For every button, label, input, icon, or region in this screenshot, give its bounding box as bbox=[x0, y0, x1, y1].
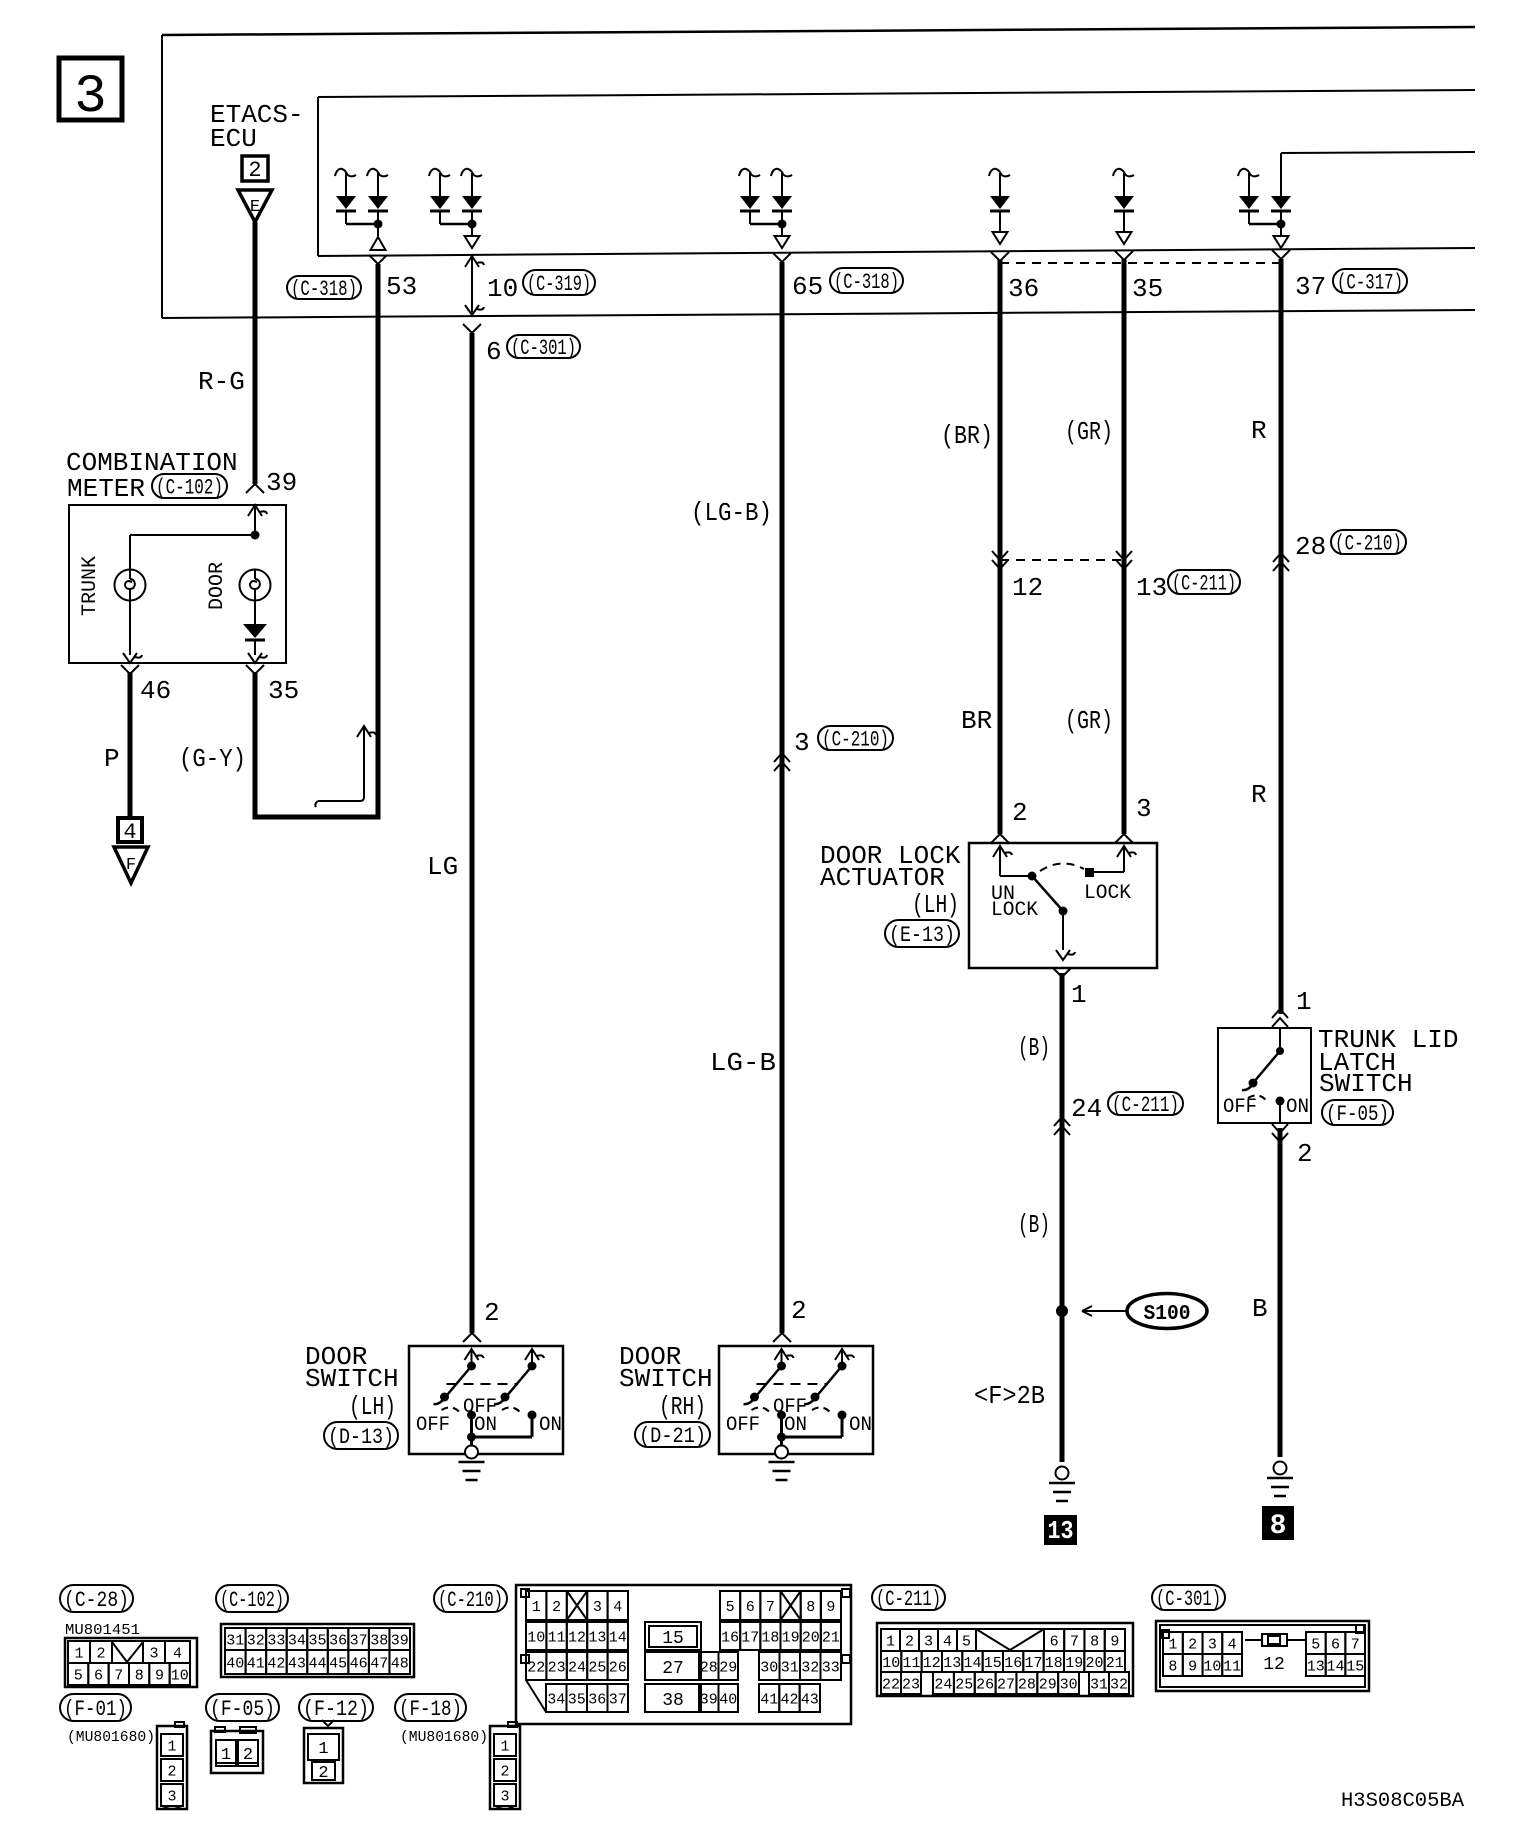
actuator switch mechanism bbox=[993, 846, 1136, 960]
svg-text:8: 8 bbox=[135, 1667, 144, 1684]
svg-text:(D-13): (D-13) bbox=[328, 1425, 394, 1450]
svg-text:16: 16 bbox=[721, 1629, 739, 1646]
svg-text:18: 18 bbox=[1045, 1655, 1063, 1672]
actuator pin 1 bbox=[1053, 968, 1087, 1010]
svg-text:1: 1 bbox=[74, 1645, 83, 1662]
wire LG (pin 6 to door switch LH) bbox=[470, 333, 475, 1333]
svg-text:(C-319): (C-319) bbox=[527, 272, 591, 297]
svg-text:34: 34 bbox=[288, 1632, 306, 1649]
svg-text:6: 6 bbox=[94, 1667, 103, 1684]
wire BR (pin 36 to actuator pin 2) bbox=[998, 260, 1003, 834]
page number box 3 bbox=[59, 58, 122, 128]
svg-text:30: 30 bbox=[1060, 1676, 1078, 1693]
svg-text:(F-18): (F-18) bbox=[399, 1697, 462, 1722]
svg-text:13: 13 bbox=[1136, 573, 1167, 603]
svg-text:2: 2 bbox=[1012, 798, 1028, 828]
svg-text:ON: ON bbox=[849, 1414, 872, 1437]
svg-text:14: 14 bbox=[963, 1655, 981, 1672]
wire P (pin 46 to connector 4) bbox=[128, 672, 133, 818]
diode above pin 35 bbox=[1113, 169, 1134, 244]
svg-text:ON: ON bbox=[784, 1414, 807, 1437]
connector C-211 pin grid bbox=[877, 1623, 1133, 1696]
svg-text:(C-210): (C-210) bbox=[822, 728, 889, 753]
svg-text:23: 23 bbox=[902, 1676, 920, 1693]
svg-text:45: 45 bbox=[329, 1655, 347, 1672]
pin 35 bbox=[1115, 251, 1163, 304]
ground ref box 8 bbox=[1262, 1506, 1294, 1542]
svg-text:43: 43 bbox=[288, 1655, 306, 1672]
door switch (RH) contacts bbox=[744, 1349, 855, 1446]
svg-text:18: 18 bbox=[761, 1629, 779, 1646]
svg-text:36: 36 bbox=[1008, 274, 1039, 304]
pin 65 bbox=[773, 253, 903, 302]
svg-text:35: 35 bbox=[268, 676, 299, 706]
svg-text:(C-211): (C-211) bbox=[1112, 1093, 1179, 1118]
svg-text:1: 1 bbox=[886, 1633, 895, 1650]
svg-text:9: 9 bbox=[826, 1599, 835, 1616]
svg-text:(G-Y): (G-Y) bbox=[179, 744, 246, 774]
svg-text:3: 3 bbox=[74, 67, 106, 128]
svg-text:<F>2B: <F>2B bbox=[974, 1381, 1045, 1411]
svg-text:7: 7 bbox=[114, 1667, 123, 1684]
svg-text:METER: METER bbox=[67, 474, 145, 504]
svg-text:8: 8 bbox=[806, 1599, 815, 1616]
svg-text:ECU: ECU bbox=[210, 124, 257, 154]
svg-text:24: 24 bbox=[1071, 1094, 1102, 1124]
svg-text:43: 43 bbox=[801, 1691, 819, 1708]
svg-text:29: 29 bbox=[1039, 1676, 1057, 1693]
svg-text:19: 19 bbox=[782, 1629, 800, 1646]
svg-text:3: 3 bbox=[924, 1633, 933, 1650]
svg-text:31: 31 bbox=[1090, 1676, 1108, 1693]
svg-text:28: 28 bbox=[1018, 1676, 1036, 1693]
svg-text:(C-318): (C-318) bbox=[291, 277, 357, 302]
connector C-301 pin grid bbox=[1156, 1621, 1369, 1691]
svg-text:3: 3 bbox=[149, 1645, 158, 1662]
actuator pin 2 bbox=[991, 798, 1028, 843]
svg-text:4: 4 bbox=[943, 1633, 952, 1650]
svg-text:13: 13 bbox=[1307, 1658, 1325, 1675]
wire B (trunk latch to ground) bbox=[1278, 1128, 1283, 1457]
svg-text:41: 41 bbox=[760, 1691, 778, 1708]
svg-text:2: 2 bbox=[318, 1764, 328, 1783]
svg-text:(C-301): (C-301) bbox=[1156, 1587, 1221, 1612]
connector F-01 label bbox=[60, 1694, 131, 1721]
svg-text:(C-102): (C-102) bbox=[220, 1588, 284, 1613]
svg-text:38: 38 bbox=[370, 1632, 388, 1649]
svg-text:15: 15 bbox=[662, 1629, 684, 1649]
svg-text:MU801451: MU801451 bbox=[65, 1622, 140, 1639]
wire G-Y loop (meter pin 35 joins pin 53 wire) bbox=[255, 264, 378, 817]
labels DOOR SWITCH (RH) (D-21) bbox=[619, 1342, 713, 1422]
trunk latch pin 2 bbox=[1272, 1124, 1313, 1169]
svg-text:2: 2 bbox=[96, 1645, 105, 1662]
svg-text:21: 21 bbox=[1106, 1655, 1124, 1672]
svg-text:28: 28 bbox=[700, 1659, 718, 1676]
svg-text:3: 3 bbox=[1136, 794, 1152, 824]
svg-text:DOOR: DOOR bbox=[206, 562, 229, 610]
svg-text:6: 6 bbox=[1331, 1636, 1340, 1653]
svg-text:R: R bbox=[1251, 780, 1267, 810]
diode above pin 36 bbox=[989, 169, 1010, 244]
svg-text:12: 12 bbox=[923, 1655, 941, 1672]
ground (trunk latch) bbox=[1267, 1462, 1293, 1497]
pin 10 with arrows bbox=[465, 256, 518, 315]
door switch (LH) contacts bbox=[434, 1349, 545, 1446]
svg-text:8: 8 bbox=[1090, 1633, 1099, 1650]
wire to trunk lamp bbox=[130, 534, 255, 536]
svg-text:4: 4 bbox=[173, 1645, 182, 1662]
pin 36 bbox=[991, 252, 1039, 304]
svg-text:(C-28): (C-28) bbox=[64, 1588, 129, 1613]
svg-text:9: 9 bbox=[1188, 1658, 1197, 1675]
svg-text:25: 25 bbox=[955, 1676, 973, 1693]
svg-text:(MU801680): (MU801680) bbox=[67, 1729, 155, 1746]
svg-text:12: 12 bbox=[1263, 1655, 1285, 1675]
connector label (C-319) bbox=[523, 270, 595, 295]
connector marker box 2 (ETACS-ECU) bbox=[242, 156, 268, 183]
svg-text:13: 13 bbox=[943, 1655, 961, 1672]
svg-text:2: 2 bbox=[167, 1763, 176, 1780]
wire R-G (E triangle to combination meter pin 39) bbox=[246, 222, 264, 493]
svg-text:B: B bbox=[1252, 1294, 1268, 1324]
connector marker box 4 bbox=[118, 818, 142, 845]
svg-text:6: 6 bbox=[746, 1599, 755, 1616]
svg-text:(C-211): (C-211) bbox=[1172, 572, 1236, 597]
svg-text:19: 19 bbox=[1065, 1655, 1083, 1672]
pin 37 bbox=[1272, 250, 1407, 302]
combination meter pin 39 entry arrow bbox=[248, 505, 267, 535]
svg-text:31: 31 bbox=[781, 1659, 799, 1676]
svg-text:(B): (B) bbox=[1018, 1033, 1050, 1063]
diode pair above pin 65 bbox=[739, 169, 792, 248]
pin 6 connector (C-301) below frame bbox=[463, 324, 580, 367]
trunk latch OFF/ON labels bbox=[1223, 1096, 1309, 1119]
svg-text:(LH): (LH) bbox=[912, 890, 959, 920]
svg-text:3: 3 bbox=[794, 728, 810, 758]
svg-text:3: 3 bbox=[167, 1788, 176, 1805]
svg-text:35: 35 bbox=[568, 1691, 586, 1708]
svg-text:29: 29 bbox=[719, 1659, 737, 1676]
svg-text:24: 24 bbox=[568, 1659, 586, 1676]
svg-text:2: 2 bbox=[248, 158, 261, 183]
svg-text:1: 1 bbox=[500, 1738, 509, 1755]
svg-text:ACTUATOR: ACTUATOR bbox=[820, 863, 945, 893]
svg-text:OFF: OFF bbox=[1223, 1096, 1257, 1119]
connector F-05 drawing bbox=[211, 1727, 263, 1773]
svg-text:1: 1 bbox=[1168, 1636, 1177, 1653]
svg-text:33: 33 bbox=[822, 1659, 840, 1676]
svg-text:SWITCH: SWITCH bbox=[619, 1364, 713, 1394]
svg-text:13: 13 bbox=[588, 1629, 606, 1646]
svg-text:15: 15 bbox=[1346, 1658, 1364, 1675]
svg-text:33: 33 bbox=[267, 1632, 285, 1649]
svg-text:(C-102): (C-102) bbox=[156, 476, 223, 501]
svg-text:40: 40 bbox=[226, 1655, 244, 1672]
svg-text:31: 31 bbox=[226, 1632, 244, 1649]
inline connector 28 (C-210) bbox=[1273, 530, 1406, 571]
wire GR (pin 35 to actuator pin 3) bbox=[1122, 259, 1127, 834]
DOOR LOCK ACTUATOR box bbox=[969, 843, 1157, 968]
svg-text:44: 44 bbox=[308, 1655, 326, 1672]
svg-text:(LH): (LH) bbox=[349, 1392, 396, 1422]
svg-text:5: 5 bbox=[1311, 1636, 1320, 1653]
svg-text:48: 48 bbox=[391, 1655, 409, 1672]
svg-text:6: 6 bbox=[1050, 1633, 1059, 1650]
svg-text:8: 8 bbox=[1270, 1511, 1287, 1542]
svg-text:(D-21): (D-21) bbox=[639, 1424, 706, 1449]
labels DOOR LOCK ACTUATOR (LH) (E-13) bbox=[820, 841, 961, 920]
connector C-28 pin grid bbox=[65, 1638, 197, 1687]
svg-text:12: 12 bbox=[568, 1629, 586, 1646]
wire B (actuator pin 1 to ground) bbox=[1060, 973, 1065, 1462]
svg-text:9: 9 bbox=[1110, 1633, 1119, 1650]
svg-text:20: 20 bbox=[1085, 1655, 1103, 1672]
svg-text:27: 27 bbox=[997, 1676, 1015, 1693]
svg-text:34: 34 bbox=[547, 1691, 565, 1708]
svg-text:10: 10 bbox=[1203, 1658, 1221, 1675]
svg-text:(RH): (RH) bbox=[659, 1392, 706, 1422]
trunk latch switch mechanism bbox=[1242, 1028, 1285, 1123]
inline connector 12 / 13 (C-211) bbox=[992, 551, 1240, 603]
svg-text:32: 32 bbox=[801, 1659, 819, 1676]
svg-text:10: 10 bbox=[527, 1629, 545, 1646]
svg-text:32: 32 bbox=[247, 1632, 265, 1649]
svg-text:(C-318): (C-318) bbox=[834, 270, 899, 295]
svg-text:6: 6 bbox=[486, 337, 502, 367]
ETACS-ECU inner box bbox=[318, 90, 1475, 256]
svg-text:(F-05): (F-05) bbox=[1326, 1102, 1389, 1127]
wire LG-B (pin 65 to door switch RH) bbox=[780, 262, 785, 1333]
pin 53 bbox=[369, 255, 417, 302]
TRUNK LID LATCH SWITCH box bbox=[1218, 1028, 1311, 1123]
svg-text:4: 4 bbox=[613, 1599, 622, 1616]
svg-text:LOCK: LOCK bbox=[1084, 882, 1131, 905]
svg-text:TRUNK: TRUNK bbox=[79, 556, 102, 616]
connector C-301 label bbox=[1152, 1585, 1225, 1610]
connector F-01 drawing bbox=[157, 1722, 187, 1809]
svg-text:ON: ON bbox=[1286, 1096, 1309, 1119]
connector F-18 drawing bbox=[490, 1722, 520, 1809]
terminal triangle E bbox=[238, 190, 272, 222]
wire R (pin 37 to trunk latch) bbox=[1279, 259, 1284, 1014]
svg-text:S100: S100 bbox=[1144, 1303, 1191, 1326]
svg-text:BR: BR bbox=[961, 706, 992, 736]
svg-text:28: 28 bbox=[1295, 532, 1326, 562]
svg-text:(E-13): (E-13) bbox=[889, 923, 955, 948]
lamp TRUNK bbox=[115, 570, 146, 601]
svg-text:3: 3 bbox=[593, 1599, 602, 1616]
svg-text:41: 41 bbox=[247, 1655, 265, 1672]
svg-text:22: 22 bbox=[882, 1676, 900, 1693]
svg-text:(B): (B) bbox=[1018, 1210, 1050, 1240]
connector label (C-318) for pin 53 bbox=[287, 276, 361, 299]
terminal triangle F bbox=[114, 847, 148, 883]
svg-text:37: 37 bbox=[1295, 272, 1326, 302]
svg-text:R-G: R-G bbox=[198, 367, 245, 397]
svg-text:42: 42 bbox=[267, 1655, 285, 1672]
ground (S100 branch) bbox=[1049, 1467, 1075, 1502]
svg-text:21: 21 bbox=[822, 1629, 840, 1646]
svg-text:2: 2 bbox=[1297, 1139, 1313, 1169]
svg-text:46: 46 bbox=[140, 676, 171, 706]
svg-text:37: 37 bbox=[350, 1632, 368, 1649]
svg-text:65: 65 bbox=[792, 272, 823, 302]
COMBINATION METER box (C-102) bbox=[69, 505, 286, 663]
svg-text:23: 23 bbox=[548, 1659, 566, 1676]
svg-text:SWITCH: SWITCH bbox=[305, 1364, 399, 1394]
meter exit arrows pin 46 bbox=[121, 653, 142, 674]
svg-text:5: 5 bbox=[726, 1599, 735, 1616]
svg-text:36: 36 bbox=[588, 1691, 606, 1708]
svg-text:LOCK: LOCK bbox=[991, 899, 1038, 922]
diode pair above pin 53 bbox=[335, 169, 388, 250]
svg-text:2: 2 bbox=[552, 1599, 561, 1616]
svg-text:1: 1 bbox=[532, 1599, 541, 1616]
connector F-05 label bbox=[206, 1694, 279, 1721]
svg-text:(F-05): (F-05) bbox=[210, 1697, 275, 1722]
direction arrow (to ETACS) bbox=[315, 726, 376, 807]
svg-text:47: 47 bbox=[370, 1655, 388, 1672]
connector C-102 pin grid bbox=[221, 1624, 414, 1677]
svg-text:(C-210): (C-210) bbox=[438, 1588, 503, 1613]
svg-text:36: 36 bbox=[329, 1632, 347, 1649]
svg-text:5: 5 bbox=[962, 1633, 971, 1650]
svg-text:39: 39 bbox=[391, 1632, 409, 1649]
svg-text:2: 2 bbox=[905, 1633, 914, 1650]
DOOR SWITCH (LH) box bbox=[409, 1346, 563, 1454]
svg-text:53: 53 bbox=[386, 272, 417, 302]
svg-text:17: 17 bbox=[1024, 1655, 1042, 1672]
ground ref box 13 bbox=[1044, 1515, 1077, 1546]
svg-text:(GR): (GR) bbox=[1065, 417, 1113, 447]
svg-text:ON: ON bbox=[539, 1414, 562, 1437]
svg-text:(F-12): (F-12) bbox=[303, 1697, 369, 1722]
svg-text:11: 11 bbox=[548, 1629, 566, 1646]
dashed bus linking pins 36-35-37 bbox=[1000, 262, 1281, 264]
svg-text:25: 25 bbox=[588, 1659, 606, 1676]
svg-text:H3S08C05BA: H3S08C05BA bbox=[1341, 1790, 1464, 1813]
svg-text:12: 12 bbox=[1012, 573, 1043, 603]
splice S100 bbox=[1056, 1294, 1207, 1329]
svg-text:38: 38 bbox=[662, 1691, 684, 1711]
labels TRUNK LID LATCH SWITCH (F-05) bbox=[1318, 1025, 1458, 1099]
svg-text:4: 4 bbox=[1228, 1636, 1237, 1653]
svg-text:LG-B: LG-B bbox=[710, 1048, 776, 1078]
svg-text:E: E bbox=[250, 198, 260, 217]
node: junction at pin39 branch bbox=[251, 531, 260, 540]
svg-text:24: 24 bbox=[934, 1676, 952, 1693]
svg-text:17: 17 bbox=[741, 1629, 759, 1646]
connector F-12 label bbox=[299, 1694, 373, 1721]
svg-text:11: 11 bbox=[1223, 1658, 1241, 1675]
svg-text:1: 1 bbox=[167, 1738, 176, 1755]
wire trunk lamp to pin 46 bbox=[129, 600, 131, 655]
svg-text:(C-210): (C-210) bbox=[1335, 532, 1402, 557]
connector C-28 label bbox=[60, 1585, 133, 1612]
svg-text:35: 35 bbox=[1132, 274, 1163, 304]
svg-text:14: 14 bbox=[1326, 1658, 1344, 1675]
svg-text:4: 4 bbox=[123, 820, 136, 845]
svg-text:7: 7 bbox=[766, 1599, 775, 1616]
diode pair above pin 37 bbox=[1238, 153, 1291, 248]
door switch RH pin 2 bbox=[773, 1296, 807, 1342]
actuator pin 3 bbox=[1115, 794, 1152, 843]
svg-text:(F-01): (F-01) bbox=[64, 1697, 127, 1722]
connector C-210 label bbox=[434, 1585, 507, 1612]
svg-text:2: 2 bbox=[791, 1296, 807, 1326]
svg-text:10: 10 bbox=[882, 1655, 900, 1672]
svg-text:20: 20 bbox=[802, 1629, 820, 1646]
svg-text:3: 3 bbox=[500, 1788, 509, 1805]
svg-text:15: 15 bbox=[984, 1655, 1002, 1672]
svg-text:(C-211): (C-211) bbox=[876, 1587, 941, 1612]
svg-text:1: 1 bbox=[1296, 987, 1312, 1017]
svg-text:(BR): (BR) bbox=[941, 421, 993, 451]
ground (door switch RH) bbox=[769, 1446, 795, 1481]
svg-text:(C-301): (C-301) bbox=[511, 336, 576, 361]
svg-text:35: 35 bbox=[308, 1632, 326, 1649]
svg-text:37: 37 bbox=[609, 1691, 627, 1708]
svg-text:26: 26 bbox=[609, 1659, 627, 1676]
svg-text:(C-317): (C-317) bbox=[1337, 271, 1403, 296]
svg-text:30: 30 bbox=[760, 1659, 778, 1676]
diode pair above pin 10 bbox=[429, 169, 482, 248]
door switch LH pin 2 bbox=[463, 1298, 500, 1342]
svg-text:7: 7 bbox=[1351, 1636, 1360, 1653]
svg-text:39: 39 bbox=[700, 1691, 718, 1708]
svg-text:2: 2 bbox=[500, 1763, 509, 1780]
svg-text:14: 14 bbox=[609, 1629, 627, 1646]
svg-text:10: 10 bbox=[487, 274, 518, 304]
ETACS-ECU outer box bbox=[162, 27, 1475, 318]
svg-text:32: 32 bbox=[1110, 1676, 1128, 1693]
connector C-210 pin grid bbox=[516, 1585, 851, 1724]
svg-text:(GR): (GR) bbox=[1065, 706, 1113, 736]
labels DOOR SWITCH (LH) (D-13) bbox=[305, 1342, 399, 1422]
svg-text:39: 39 bbox=[266, 468, 297, 498]
svg-text:40: 40 bbox=[719, 1691, 737, 1708]
svg-text:OFF: OFF bbox=[416, 1414, 450, 1437]
inline connector 3 (C-210) on LG-B wire bbox=[774, 726, 893, 771]
svg-text:46: 46 bbox=[350, 1655, 368, 1672]
svg-text:R: R bbox=[1251, 416, 1267, 446]
diode inside combination meter bbox=[243, 600, 267, 655]
svg-text:LG: LG bbox=[427, 852, 458, 882]
svg-text:(LG-B): (LG-B) bbox=[691, 498, 772, 528]
ground (door switch LH) bbox=[459, 1446, 485, 1481]
DOOR SWITCH (RH) box bbox=[719, 1346, 873, 1454]
label COMBINATION METER bbox=[66, 448, 238, 504]
lamp DOOR bbox=[240, 570, 271, 601]
connector C-102 label bbox=[216, 1585, 288, 1612]
wire to next page (top right) bbox=[1281, 152, 1475, 153]
connector F-18 label bbox=[395, 1694, 466, 1721]
svg-text:2: 2 bbox=[1188, 1636, 1197, 1653]
svg-text:7: 7 bbox=[1070, 1633, 1079, 1650]
svg-text:1: 1 bbox=[318, 1740, 328, 1759]
svg-text:2: 2 bbox=[484, 1298, 500, 1328]
svg-text:42: 42 bbox=[780, 1691, 798, 1708]
svg-text:3: 3 bbox=[1208, 1636, 1217, 1653]
connector C-211 label bbox=[872, 1585, 945, 1610]
svg-text:P: P bbox=[104, 744, 120, 774]
switch LH OFF/ON labels bbox=[416, 1396, 562, 1437]
svg-text:13: 13 bbox=[1048, 1516, 1074, 1546]
svg-text:9: 9 bbox=[155, 1667, 164, 1684]
svg-text:1: 1 bbox=[1071, 980, 1087, 1010]
svg-text:8: 8 bbox=[1168, 1658, 1177, 1675]
